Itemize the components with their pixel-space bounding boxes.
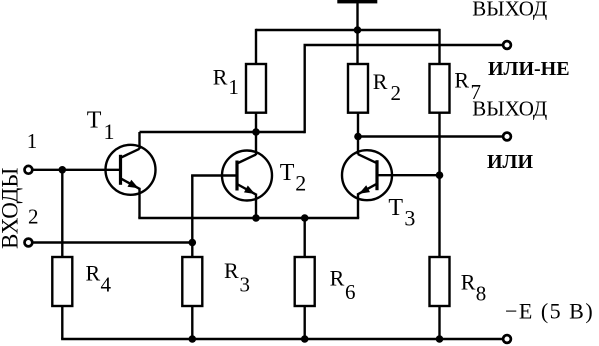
wire: NOR riser up (304, 45, 306, 133)
svg-text:3: 3 (404, 205, 415, 230)
svg-text:R: R (86, 261, 101, 286)
wire: T1 emitter down (138, 188, 140, 218)
svg-text:Т: Т (87, 108, 102, 134)
wire: top line down to R7 (438, 29, 440, 65)
svg-text:3: 3 (240, 272, 251, 296)
junction: T2 emitter on rail (252, 214, 260, 222)
wire: T1 collector riser (138, 132, 140, 149)
wire: T2 base branch vertical (191, 176, 193, 259)
svg-text:ИЛИ-НЕ: ИЛИ-НЕ (488, 58, 570, 80)
resistor R7 (430, 64, 450, 113)
svg-text:ВХОДЫ: ВХОДЫ (0, 168, 23, 249)
svg-text:R: R (461, 270, 476, 295)
wire: input 2 line (33, 241, 192, 243)
wire: R7 bottom to R8 top through T3 base node (438, 113, 440, 258)
svg-text:R: R (330, 266, 345, 291)
svg-text:R: R (224, 258, 239, 283)
wire: collector line T1-T2 to NOR riser (140, 131, 305, 133)
wire: R8 bottom to rail (438, 305, 440, 339)
svg-text:1: 1 (228, 75, 239, 99)
wire: T3 emitter down (357, 193, 359, 218)
junction: R2 bottom / T3 collector / OR line (354, 133, 362, 141)
wire: R4 bottom to rail (61, 305, 63, 339)
wire: R6 bottom to rail (304, 305, 306, 339)
resistor R2 (348, 64, 368, 113)
wire: bar down to R2 top (356, 3, 358, 65)
wire: R2 bottom to OR node (357, 113, 359, 137)
svg-text:Т: Т (280, 160, 295, 186)
svg-text:Т: Т (388, 195, 403, 221)
svg-text:ВЫХОД: ВЫХОД (472, 0, 547, 21)
wire: T2 base line (191, 174, 237, 176)
terminal: input 1 (25, 166, 33, 174)
wire: R3 bottom to rail (191, 305, 193, 339)
wire: T3 collector riser (357, 137, 359, 155)
transistor T1 (106, 145, 156, 195)
svg-text:2: 2 (295, 170, 306, 195)
svg-text:R: R (213, 64, 228, 89)
junction: T3 base / R7-R8 divider (436, 171, 444, 179)
wire: NOR output line (304, 44, 503, 46)
wire: rail down to R6 (304, 218, 306, 258)
wire: input1 node down to R4 (61, 170, 63, 258)
svg-text:R: R (454, 68, 469, 93)
junction: R1 bottom / collector node (252, 128, 260, 136)
wire: top supply line (256, 29, 440, 31)
wire: T2 emitter down (255, 194, 257, 219)
wire: emitter rail (138, 217, 359, 219)
terminal: input 2 (25, 239, 33, 247)
junction: input1 / R4 branch (59, 166, 67, 174)
power bar (grounded collector rail) (337, 0, 377, 3)
wire: T3 base line (377, 174, 440, 176)
svg-text:1: 1 (104, 119, 115, 144)
wire: R1 bottom to collector node and T2 collector (255, 113, 257, 155)
wire: bottom rail (61, 338, 502, 340)
svg-text:ВЫХОД: ВЫХОД (472, 97, 547, 121)
svg-text:2: 2 (391, 81, 402, 105)
transistor T2 (222, 151, 272, 201)
resistor R6 (295, 257, 315, 306)
wire: input 1 to T1 base (33, 169, 121, 171)
svg-text:−E (5 В): −E (5 В) (505, 299, 594, 324)
svg-text:ИЛИ: ИЛИ (487, 151, 533, 173)
wire: top line down to R1 (255, 29, 257, 65)
svg-text:4: 4 (101, 273, 112, 297)
junction: emitter rail / R6 (301, 214, 309, 222)
junction: bar/top line (354, 26, 362, 34)
junction: R6 / rail (301, 335, 309, 343)
terminal: -E supply (503, 335, 511, 343)
resistor R8 (430, 257, 450, 306)
junction: R8 / rail (436, 335, 444, 343)
wire: OR output line (358, 135, 502, 137)
svg-text:2: 2 (28, 205, 39, 229)
svg-text:1: 1 (27, 129, 38, 153)
svg-text:R: R (373, 69, 388, 94)
terminal: OR output (503, 133, 511, 141)
resistor R3 (182, 257, 202, 306)
svg-text:8: 8 (476, 281, 487, 305)
junction: input2 / T2 base / R3 (189, 239, 197, 247)
svg-text:6: 6 (345, 280, 356, 304)
terminal: NOR output (503, 41, 511, 49)
resistor R4 (52, 257, 72, 306)
junction: R3 / rail (189, 335, 197, 343)
resistor R1 (246, 64, 266, 113)
transistor T3 (mirrored) (342, 150, 392, 200)
